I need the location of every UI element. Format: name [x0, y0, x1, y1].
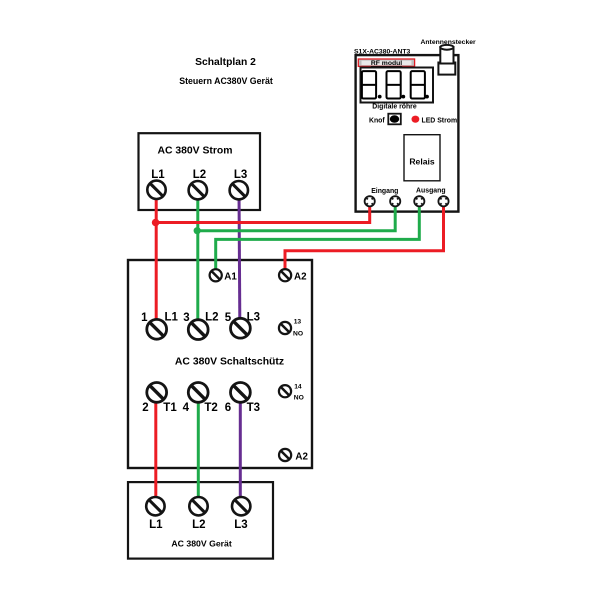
- svg-text:A1: A1: [224, 271, 237, 282]
- screw terminal 6 T3: [231, 383, 251, 403]
- svg-text:T1: T1: [163, 402, 177, 414]
- box AC 380V Geraet: [128, 482, 273, 558]
- svg-text:L2: L2: [205, 311, 218, 323]
- svg-text:L1: L1: [149, 519, 163, 531]
- terminal Ausgang 3: [414, 196, 424, 206]
- svg-text:AC 380V Gerät: AC 380V Gerät: [171, 539, 231, 549]
- antenna connector top ellipse: [440, 45, 453, 50]
- screw terminal 4 T2: [188, 383, 208, 403]
- screw terminal A2 top: [279, 269, 291, 281]
- wire purple T3 to Geraet L3: [239, 394, 242, 501]
- svg-text:3: 3: [183, 312, 189, 324]
- screw terminal L3 geraet: [232, 497, 250, 515]
- junction red node: [152, 219, 160, 227]
- box AC 380V Strom: [139, 133, 261, 210]
- display digit 2: [387, 71, 401, 98]
- screw terminal L1 geraet: [146, 497, 164, 515]
- svg-text:NO: NO: [293, 331, 303, 338]
- screw terminal A1: [210, 269, 222, 281]
- wire green to Eingang terminal 2: [198, 199, 395, 231]
- wire red L1 phase vertical: [155, 191, 158, 320]
- svg-text:6: 6: [225, 402, 231, 414]
- wire green T2 to Geraet L2: [197, 394, 200, 501]
- wire red to Eingang terminal 1: [156, 199, 370, 223]
- svg-text:AC 380V Strom: AC 380V Strom: [157, 145, 232, 156]
- screw terminal 1 L1: [147, 319, 167, 339]
- display decimal point 3: [425, 95, 429, 99]
- LED Strom indicator: [412, 116, 420, 123]
- svg-text:14: 14: [294, 383, 302, 390]
- screw terminal L1 strom: [147, 181, 165, 199]
- receiver box: [356, 55, 459, 212]
- screw terminal L3 strom: [230, 181, 248, 199]
- relay box Relais: [404, 135, 440, 181]
- antenna connector body: [438, 63, 455, 75]
- svg-text:LED Strom: LED Strom: [422, 117, 458, 124]
- display digit 3: [411, 71, 425, 98]
- svg-text:Digitale röhre: Digitale röhre: [372, 104, 417, 111]
- wire red A2 to Ausgang terminal 4: [285, 199, 444, 270]
- svg-text:5: 5: [225, 312, 232, 324]
- svg-text:T3: T3: [247, 402, 260, 414]
- wire green L2 phase vertical: [196, 191, 199, 320]
- svg-text:A2: A2: [295, 451, 308, 462]
- screw terminal A2 bottom: [279, 449, 291, 461]
- terminal Eingang 2: [390, 196, 400, 206]
- button Knof: [388, 114, 401, 125]
- antenna connector tube: [440, 47, 453, 64]
- svg-text:1: 1: [141, 312, 148, 324]
- svg-text:NO: NO: [294, 394, 304, 401]
- svg-text:Ausgang: Ausgang: [416, 188, 445, 195]
- display decimal point 2: [401, 95, 405, 99]
- screw terminal 3 L2: [188, 320, 208, 340]
- box AC 380V Schaltschuetz contactor: [128, 260, 312, 468]
- screw terminal 14: [279, 385, 291, 397]
- RF modul box: [358, 59, 414, 66]
- svg-text:L1: L1: [165, 311, 179, 323]
- junction green node: [194, 227, 201, 234]
- terminal Ausgang 4: [438, 196, 448, 206]
- svg-text:Eingang: Eingang: [371, 188, 398, 195]
- svg-text:Knof: Knof: [369, 117, 385, 124]
- display digit 1: [362, 71, 376, 98]
- svg-text:13: 13: [294, 319, 302, 326]
- screw terminal 5 L3: [231, 318, 251, 338]
- svg-text:AC 380V Schaltschütz: AC 380V Schaltschütz: [175, 356, 284, 367]
- screw terminal 2 T1: [147, 383, 167, 403]
- wire green A1 to Ausgang terminal 3: [216, 199, 420, 270]
- screw terminal 13: [279, 322, 291, 334]
- wire purple L3 phase vertical: [238, 191, 242, 318]
- display decimal point 1: [378, 95, 382, 99]
- svg-text:T2: T2: [204, 402, 217, 414]
- svg-text:L2: L2: [192, 519, 205, 531]
- screw terminal L2 geraet: [189, 497, 207, 515]
- svg-text:Schaltplan 2: Schaltplan 2: [195, 57, 256, 68]
- svg-text:2: 2: [142, 402, 148, 414]
- svg-text:L3: L3: [234, 169, 247, 181]
- svg-text:A2: A2: [294, 271, 307, 282]
- svg-text:Steuern AC380V Gerät: Steuern AC380V Gerät: [179, 76, 273, 86]
- screw terminal L2 strom: [189, 181, 207, 199]
- svg-text:4: 4: [183, 402, 190, 414]
- svg-text:L3: L3: [234, 519, 247, 531]
- digital display box: [361, 68, 434, 103]
- terminal Eingang 1: [365, 196, 375, 206]
- wire red T1 to Geraet L1: [154, 394, 157, 501]
- svg-text:RF modul: RF modul: [371, 60, 402, 67]
- svg-text:L1: L1: [151, 169, 165, 181]
- svg-text:L2: L2: [193, 169, 206, 181]
- svg-text:Relais: Relais: [409, 156, 435, 166]
